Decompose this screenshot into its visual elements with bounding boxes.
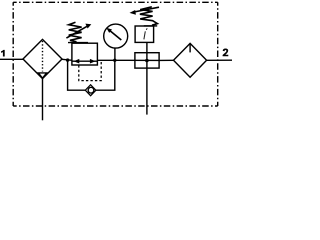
junction dot C (distributor centre) (145, 59, 149, 63)
regulator flow path with outward arrows (72, 59, 97, 64)
regulator adjustment spring with arrow (66, 22, 91, 42)
wire: distributor to lubricator (159, 59, 174, 61)
wire: regulator to distributor (97, 59, 159, 61)
pressure switch spring with arrow (130, 7, 160, 26)
condensate drain wire (filter) (42, 79, 44, 121)
pressure gauge G1 (104, 24, 128, 48)
gauge stem wire (114, 48, 116, 60)
pilot line (dashed) of regulator (79, 62, 101, 81)
wire: port 2 outlet (207, 59, 232, 61)
check valve V1 (diamond with ball) (85, 85, 96, 96)
wire: port 1 inlet (0, 58, 24, 60)
port 1 label (1, 50, 5, 57)
wire: pressure switch stub (146, 42, 148, 52)
junction dot A (bypass tap) (66, 58, 69, 61)
enclosure border (dash-dot assembly boundary) (13, 2, 218, 106)
junction dot B (gauge tap) (113, 59, 116, 62)
wire: filter to regulator (62, 59, 72, 60)
lubricator L1 (174, 43, 207, 77)
pressure regulator R1 body (72, 43, 98, 65)
port 2 label (223, 49, 229, 57)
pressure switch PS1 body (135, 26, 154, 42)
distributor block D1 (135, 53, 159, 68)
distributor drain wire (146, 68, 148, 115)
filter / water separator F1 (23, 39, 62, 78)
bypass wire with check valve branch (68, 60, 115, 90)
